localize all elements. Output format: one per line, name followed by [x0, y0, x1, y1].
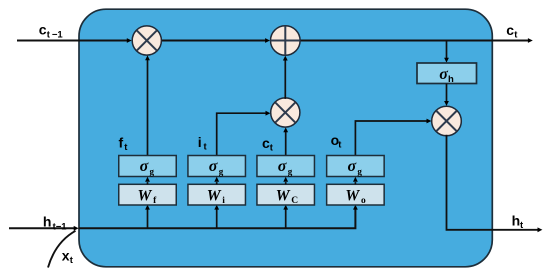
svg-text:t: t — [514, 30, 518, 41]
svg-text:i: i — [198, 134, 202, 150]
arrow W to sigma (candidate) — [283, 177, 288, 185]
svg-text:x: x — [62, 247, 70, 263]
wire h-line inside cell up to W_o — [79, 205, 358, 229]
svg-text:h: h — [448, 74, 454, 85]
input gate sigma_g box — [188, 156, 246, 177]
wire o gate elbow to output multiply — [355, 119, 431, 156]
svg-text:h: h — [43, 213, 52, 229]
svg-text:o: o — [361, 196, 366, 206]
candidate gate W box — [257, 184, 315, 206]
node label x(t) — [62, 247, 74, 266]
x(t) input curve — [48, 231, 76, 268]
wire h(t-1) input — [9, 226, 79, 231]
svg-text:h: h — [512, 212, 521, 228]
wire sigma_h to output multiply — [444, 84, 449, 106]
multiply node input — [271, 98, 300, 127]
svg-text:c: c — [506, 22, 514, 38]
multiply node output — [432, 106, 462, 136]
forget gate sigma_g box — [119, 156, 177, 177]
node label h(t) — [512, 212, 524, 231]
svg-text:σ: σ — [278, 158, 287, 175]
svg-text:σ: σ — [439, 66, 448, 83]
svg-text:W: W — [345, 188, 360, 205]
wire h-line branch up to W_i — [214, 205, 219, 229]
wire f gate up to forget multiply — [145, 55, 150, 155]
svg-text:g: g — [219, 167, 224, 177]
arrow W to sigma (output) — [353, 177, 358, 185]
wire h-line branch up to W_C — [283, 205, 288, 229]
node label c(t-1) — [39, 22, 64, 41]
add node — [271, 26, 301, 56]
svg-text:σ: σ — [140, 158, 149, 175]
wire i gate elbow to input multiply — [217, 111, 271, 156]
arrow W to sigma (input) — [214, 177, 219, 185]
gate label i(t) — [198, 134, 208, 153]
svg-text:C: C — [291, 196, 298, 206]
svg-text:g: g — [357, 167, 362, 177]
wire input multiply up to add node — [283, 56, 288, 99]
gate label f(t) — [119, 134, 129, 153]
wire output multiply down to h(t) — [447, 135, 543, 232]
node label h(t-1) — [43, 213, 67, 232]
svg-text:t−1: t−1 — [53, 221, 68, 232]
wire c(t-1) input — [17, 38, 132, 43]
node label c(t) — [506, 22, 518, 41]
gate label o(t) — [331, 132, 343, 151]
arrow W to sigma (forget) — [145, 177, 150, 185]
svg-text:i: i — [222, 196, 225, 206]
forget gate W box — [119, 184, 177, 206]
svg-text:W: W — [276, 188, 291, 205]
candidate gate sigma_g box — [257, 156, 315, 177]
wire branch down to sigma_h — [444, 42, 449, 63]
wire c gate up to input multiply — [283, 127, 288, 155]
svg-text:σ: σ — [348, 158, 357, 175]
svg-text:g: g — [288, 167, 293, 177]
svg-text:t −1: t −1 — [47, 30, 64, 41]
input gate W box — [188, 184, 246, 206]
svg-text:W: W — [138, 188, 153, 205]
svg-text:σ: σ — [209, 158, 218, 175]
output gate sigma_g box — [327, 156, 385, 177]
svg-text:f: f — [119, 134, 124, 150]
svg-text:g: g — [150, 167, 155, 177]
svg-text:c: c — [39, 22, 47, 38]
wire c-line output — [299, 38, 533, 43]
output gate W box — [327, 184, 385, 206]
activation box sigma_h — [417, 63, 477, 85]
wire c-line multiply to add — [160, 38, 270, 43]
svg-text:t: t — [70, 255, 74, 266]
LSTM cell body — [79, 9, 492, 267]
multiply node forget — [132, 26, 161, 55]
gate label c(t) candidate — [262, 135, 274, 154]
svg-text:W: W — [207, 188, 222, 205]
wire h-line branch up to W_f — [145, 205, 150, 229]
